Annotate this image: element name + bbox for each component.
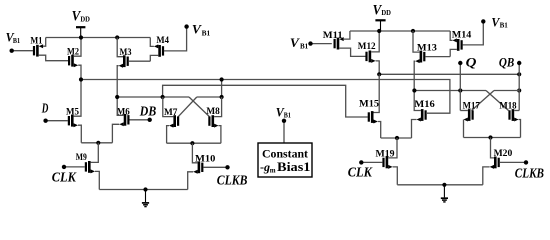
- transistor M19: [382, 157, 392, 169]
- transistor M11: [334, 37, 344, 49]
- junction node X M8: [220, 95, 224, 99]
- node VB1 M4 terminal: [184, 24, 188, 28]
- wire M15 drain to node XR: [374, 74, 380, 112]
- svg-text:M16: M16: [414, 100, 435, 110]
- VDD symbol right: [375, 20, 385, 31]
- junction tail M20: [488, 135, 492, 139]
- svg-text:M11: M11: [323, 31, 343, 41]
- wire node YR horizontal: [414, 90, 486, 92]
- junction tail M19: [395, 136, 399, 140]
- junction YR M13 M16: [412, 88, 416, 92]
- wire node XR to QB: [379, 73, 519, 75]
- svg-text:CLK: CLK: [348, 164, 373, 179]
- wire node Y horizontal: [117, 96, 189, 98]
- wire Q vertical: [459, 63, 461, 111]
- svg-text:QB: QB: [499, 54, 515, 69]
- wire VB1 to bias box: [283, 123, 285, 143]
- junction VDD-M12: [377, 29, 381, 33]
- label VDD left: [72, 9, 90, 25]
- wire M12 source to VDD rail: [371, 31, 379, 52]
- label VB1 M14: [491, 16, 508, 30]
- svg-text:CLKB: CLKB: [217, 173, 248, 188]
- svg-text:CLKB: CLKB: [515, 165, 544, 180]
- svg-text:M20: M20: [494, 149, 513, 159]
- wire M20 drain to tail: [491, 138, 495, 158]
- wire M6 source to tail: [112, 124, 119, 143]
- junction tail M10: [190, 141, 194, 145]
- wire node XR segment at M18: [494, 90, 519, 92]
- junction XR M18: [517, 88, 521, 92]
- svg-text:B1: B1: [284, 112, 292, 120]
- wire ground rail right: [397, 184, 483, 186]
- svg-text:Q: Q: [466, 54, 478, 69]
- wire M12 drain to node XR: [376, 61, 380, 74]
- node CLK terminal left: [62, 165, 66, 169]
- node VB1 M14 terminal: [481, 19, 485, 23]
- svg-text:B1: B1: [13, 37, 21, 45]
- wire M14 drain to M13 gate: [450, 49, 457, 56]
- node VB1 bias terminal: [282, 119, 286, 123]
- node VB1 right terminal: [308, 41, 312, 45]
- wire VB1 to M1 gate: [13, 50, 33, 52]
- transistor M4: [154, 44, 164, 56]
- wire M11 source to VDD rail: [344, 31, 350, 39]
- junction ground right: [442, 183, 446, 187]
- junction VDD-M3: [115, 35, 119, 39]
- junction tail M9: [96, 141, 100, 145]
- junction VDD-M13: [411, 29, 415, 33]
- wire M19 source to ground: [393, 167, 398, 185]
- svg-text:M15: M15: [359, 100, 379, 110]
- wire M14 source to VDD rail: [450, 31, 452, 40]
- wire ground rail left: [99, 189, 187, 191]
- wire M17 source to tail: [463, 120, 465, 138]
- wire cross diagonal M8 gate: [189, 97, 209, 117]
- wire VDD rail left: [46, 37, 151, 39]
- wire D input to M5 gate: [46, 120, 68, 122]
- wire node X segment at M8: [197, 96, 222, 98]
- junction ground left: [143, 187, 147, 191]
- transistor M2: [68, 55, 78, 67]
- junction XR QB: [517, 72, 521, 76]
- wire M7 drain to node Y: [163, 97, 174, 117]
- wire M11 drain to M12 gate: [339, 48, 365, 56]
- svg-text:DD: DD: [381, 9, 391, 17]
- svg-text:Bias1: Bias1: [277, 160, 311, 174]
- svg-text:Constant: Constant: [262, 146, 308, 160]
- transistor M8: [208, 115, 218, 127]
- wire M6 drain to node Y: [117, 97, 124, 115]
- label VB1 right: [290, 36, 309, 50]
- transistor M5: [68, 115, 78, 127]
- wire M18 drain to QB: [514, 110, 519, 112]
- svg-text:M9: M9: [76, 153, 87, 163]
- junction node X M2: [79, 77, 83, 81]
- wire M3 source to VDD rail: [117, 38, 123, 57]
- wire node X horizontal to M16 gate: [81, 80, 450, 114]
- svg-text:M10: M10: [195, 155, 216, 165]
- wire M14 gate to VB1: [463, 24, 484, 45]
- svg-text:M13: M13: [417, 43, 437, 53]
- transistor M18: [508, 109, 518, 121]
- transistor M13: [415, 51, 425, 63]
- node CLKB terminal left: [225, 165, 229, 169]
- label VB1 left: [6, 31, 21, 45]
- wire M3 gate from M4 drain: [129, 60, 151, 62]
- wire M10 source to ground: [188, 172, 194, 190]
- wire cross diagonal M17 gate: [472, 91, 495, 111]
- bias box Constant-gm Bias1: [258, 143, 312, 177]
- transistor M10: [193, 161, 203, 173]
- wire M1 source to VDD rail: [43, 38, 46, 47]
- wire M13 drain to node YR: [414, 61, 415, 90]
- wire M8 source to tail: [219, 126, 221, 144]
- svg-text:D: D: [41, 101, 49, 116]
- wire M19 drain to tail: [388, 138, 397, 158]
- node CLKB terminal right: [524, 160, 528, 164]
- svg-text:M8: M8: [206, 107, 220, 117]
- wire M18 source to tail: [519, 120, 521, 138]
- junction YR Q: [458, 88, 462, 92]
- svg-text:M4: M4: [156, 36, 169, 46]
- transistor M1: [33, 44, 43, 56]
- junction VDD-M2: [79, 35, 83, 39]
- svg-text:CLK: CLK: [52, 170, 77, 185]
- transistor M15: [368, 111, 378, 123]
- node DB terminal: [148, 118, 152, 122]
- transistor M9: [85, 161, 95, 173]
- wire M8 drain to node X: [214, 97, 222, 117]
- transistor M16: [417, 109, 427, 121]
- svg-text:B1: B1: [300, 42, 309, 50]
- wire M3 drain to node Y: [117, 66, 118, 97]
- wire M2 drain to node X: [78, 65, 81, 79]
- wire M15 source to tail: [378, 122, 381, 139]
- svg-text:m: m: [270, 166, 276, 174]
- wire M13 gate from M14 drain: [425, 56, 450, 58]
- wire M20 source to ground: [483, 167, 490, 185]
- wire M6 gate to DB: [130, 119, 150, 121]
- wire M1 drain to M2 gate: [39, 55, 68, 61]
- junction node Y M7: [161, 95, 165, 99]
- wire M17 drain to Q: [460, 110, 468, 112]
- wire M4 gate to VB1: [164, 28, 187, 51]
- svg-text:DB: DB: [139, 104, 156, 119]
- wire M9 drain to tail: [91, 143, 99, 163]
- wire cross diagonal M7 gate: [178, 97, 197, 117]
- wire M4 drain to M3 gate: [150, 55, 158, 61]
- wire node X to M8 drain link: [221, 80, 223, 98]
- wire cross diagonal M18 gate: [486, 91, 509, 111]
- junction node Y M3: [115, 95, 119, 99]
- wire M7 M8 common source rail: [167, 142, 221, 144]
- transistor M7: [169, 115, 179, 127]
- VDD symbol left: [76, 27, 85, 37]
- ground symbol right: [441, 185, 448, 202]
- svg-text:M12: M12: [358, 42, 376, 52]
- wire M20 gate to CLKB: [500, 161, 526, 163]
- wire M10 drain to tail: [192, 143, 197, 163]
- svg-text:M1: M1: [30, 36, 42, 46]
- wire M5 M6 common source rail: [81, 142, 112, 144]
- svg-text:M14: M14: [452, 30, 472, 40]
- wire M4 source to VDD rail: [150, 38, 154, 47]
- node VB1 left terminal: [10, 49, 14, 53]
- wire VDD rail right: [350, 30, 450, 32]
- node D terminal: [43, 119, 47, 123]
- wire QB vertical: [518, 63, 520, 111]
- wire CLK to M9 gate: [64, 166, 85, 168]
- transistor M3: [119, 55, 129, 67]
- wire M10 gate to CLKB: [203, 166, 227, 168]
- wire CLK to M19 gate: [361, 161, 382, 163]
- transistor M14: [453, 38, 463, 50]
- wire M9 source to ground: [95, 171, 99, 189]
- svg-text:B1: B1: [202, 29, 211, 37]
- label VB1 M4: [192, 22, 211, 37]
- transistor M20: [490, 157, 500, 169]
- node QB terminal: [517, 61, 521, 65]
- transistor M17: [464, 109, 474, 121]
- wire M17 M18 common source rail: [464, 137, 521, 139]
- wire node Y riser to M15 gate: [163, 85, 368, 117]
- node Q terminal: [458, 61, 462, 65]
- wire M2 source to VDD rail: [74, 38, 81, 57]
- wire M5 source to tail: [78, 125, 81, 143]
- wire M7 source to tail: [167, 126, 169, 144]
- wire M13 source to VDD rail: [413, 31, 420, 52]
- junction node X link: [220, 77, 224, 81]
- wire M16 source to tail: [412, 120, 417, 139]
- label VDD right: [373, 2, 391, 18]
- transistor M12: [365, 51, 375, 63]
- ground symbol left: [142, 190, 149, 207]
- junction XR M12 M15: [377, 72, 381, 76]
- wire M5 drain to node X: [74, 80, 81, 117]
- svg-text:DD: DD: [80, 16, 90, 24]
- node CLK terminal right: [359, 160, 363, 164]
- transistor M6: [119, 114, 129, 126]
- svg-text:B1: B1: [500, 22, 509, 30]
- wire VB1 to M11 gate: [311, 43, 332, 45]
- wire M15 M16 common source rail: [381, 137, 412, 139]
- wire M16 drain to node YR: [414, 91, 421, 111]
- label VB1 bias: [276, 105, 292, 119]
